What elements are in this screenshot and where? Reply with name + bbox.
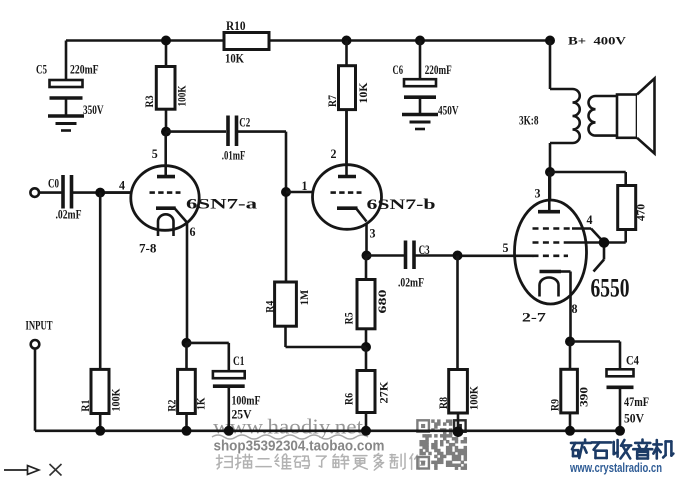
svg-text:4: 4 — [587, 213, 594, 227]
svg-text:27K: 27K — [377, 381, 391, 404]
svg-text:6SN7-b: 6SN7-b — [367, 197, 436, 213]
svg-text:R5: R5 — [341, 312, 355, 324]
svg-text:C5: C5 — [36, 62, 47, 77]
svg-text:10K: 10K — [356, 82, 370, 104]
svg-text:R8: R8 — [436, 397, 450, 409]
svg-text:10K: 10K — [225, 51, 245, 66]
svg-text:100K: 100K — [175, 85, 189, 107]
svg-text:3: 3 — [370, 227, 376, 241]
svg-text:C6: C6 — [393, 62, 404, 77]
svg-text:C2: C2 — [239, 115, 250, 130]
svg-text:50V: 50V — [624, 411, 645, 426]
svg-text:1: 1 — [302, 179, 308, 193]
svg-text:R6: R6 — [341, 393, 355, 405]
svg-text:25V: 25V — [232, 407, 253, 422]
svg-text:C3: C3 — [419, 242, 430, 257]
svg-text:390: 390 — [577, 387, 591, 407]
svg-text:.02mF: .02mF — [398, 275, 424, 290]
svg-text:1K: 1K — [194, 397, 208, 410]
svg-text:1M: 1M — [297, 290, 311, 306]
svg-text:7-8: 7-8 — [139, 241, 157, 256]
svg-text:220mF: 220mF — [70, 62, 99, 77]
svg-text:6: 6 — [190, 225, 196, 239]
svg-text:3: 3 — [535, 187, 541, 201]
svg-text:INPUT: INPUT — [26, 319, 53, 333]
svg-text:R3: R3 — [142, 96, 156, 108]
svg-text:220mF: 220mF — [425, 62, 452, 77]
svg-text:R7: R7 — [325, 95, 339, 107]
svg-text:R4: R4 — [262, 301, 276, 313]
svg-text:4: 4 — [119, 179, 126, 193]
svg-text:R9: R9 — [548, 399, 562, 411]
svg-text:C1: C1 — [233, 353, 245, 368]
svg-text:.01mF: .01mF — [222, 148, 246, 163]
svg-text:5: 5 — [152, 147, 158, 161]
svg-text:350V: 350V — [83, 102, 104, 117]
svg-text:100K: 100K — [109, 388, 123, 412]
svg-text:shop35392304.taobao.com: shop35392304.taobao.com — [214, 438, 385, 455]
svg-text:6SN7-a: 6SN7-a — [186, 197, 258, 213]
svg-text:5: 5 — [503, 241, 509, 255]
svg-text:www.crystalradio.cn: www.crystalradio.cn — [569, 461, 662, 475]
svg-text:100mF: 100mF — [232, 393, 261, 408]
svg-text:470: 470 — [634, 204, 648, 221]
svg-text:8: 8 — [572, 302, 578, 316]
svg-text:450V: 450V — [438, 103, 459, 118]
svg-text:B+ 400V: B+ 400V — [568, 34, 626, 48]
svg-text:2: 2 — [331, 147, 337, 161]
svg-text:C0: C0 — [48, 176, 59, 191]
svg-text:R10: R10 — [226, 18, 246, 33]
svg-text:R2: R2 — [165, 400, 179, 412]
svg-text:.02mF: .02mF — [56, 207, 82, 222]
svg-text:100K: 100K — [467, 385, 481, 410]
svg-text:2-7: 2-7 — [522, 310, 547, 325]
svg-text:6550: 6550 — [591, 274, 630, 303]
svg-text:680: 680 — [375, 290, 389, 314]
svg-text:3K:8: 3K:8 — [519, 113, 539, 128]
svg-text:R1: R1 — [78, 400, 92, 412]
svg-text:C4: C4 — [626, 353, 639, 368]
svg-text:47mF: 47mF — [624, 394, 649, 409]
